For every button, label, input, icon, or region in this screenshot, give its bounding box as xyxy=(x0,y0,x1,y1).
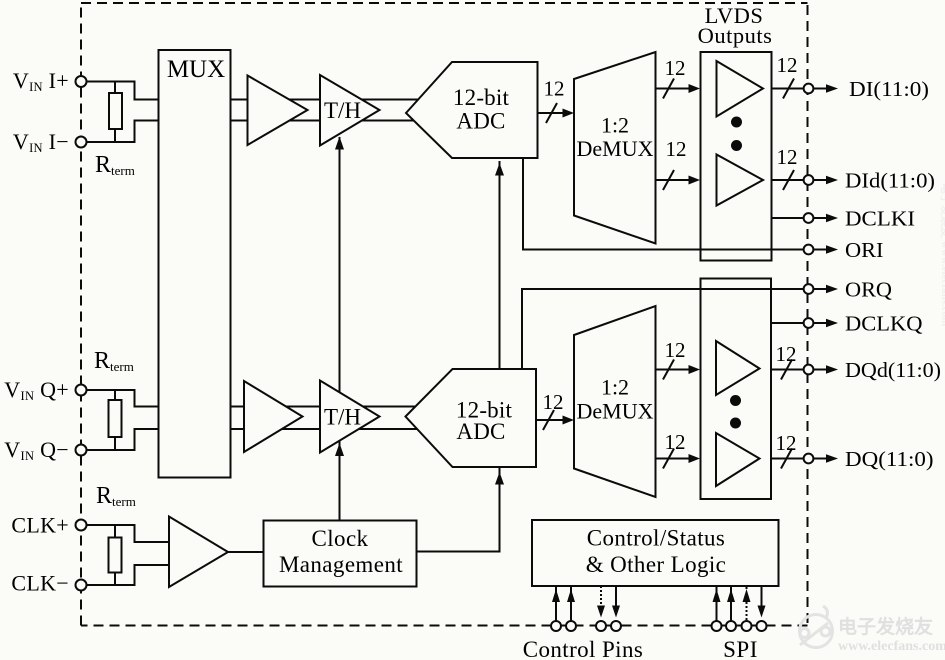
svg-text:T/H: T/H xyxy=(324,98,361,123)
control pin 4 (output arrow) xyxy=(611,586,621,631)
CLK buffer amp xyxy=(169,517,228,588)
input terminal Vin Q+ xyxy=(76,385,87,396)
input terminal CLK- xyxy=(76,580,87,591)
svg-text:VIN Q−: VIN Q− xyxy=(4,437,69,463)
DeMUX Q trapezoid xyxy=(574,306,656,497)
wire ORI from ADC I to output xyxy=(523,158,804,250)
svg-text:电子发烧友 www.elecfans.com: 电子发烧友 www.elecfans.com xyxy=(939,183,945,326)
resistor Rterm I xyxy=(109,82,122,143)
T/H Q xyxy=(320,381,380,453)
output terminal DQ xyxy=(804,454,838,464)
clock wire from Clock Management to ADCs xyxy=(417,161,500,552)
bus slashes DeMUX Q outputs xyxy=(663,360,674,380)
ellipsis dots Q xyxy=(730,395,741,406)
svg-text:12: 12 xyxy=(777,145,798,169)
svg-text:DQ(11:0): DQ(11:0) xyxy=(845,447,934,471)
output terminal DCLKQ xyxy=(804,318,838,328)
arrowhead into DeMUX Q input xyxy=(563,416,575,425)
arrowhead clock into ADC Q xyxy=(495,472,504,485)
svg-text:ORI: ORI xyxy=(845,238,884,262)
svg-text:DI(11:0): DI(11:0) xyxy=(849,77,929,101)
svg-text:DId(11:0): DId(11:0) xyxy=(845,169,935,193)
resistor Rterm CLK xyxy=(109,525,122,585)
svg-text:1:2: 1:2 xyxy=(601,113,629,138)
buffer amp I xyxy=(248,76,308,146)
svg-text:CLK+: CLK+ xyxy=(11,513,69,538)
arrowhead clock into T/H Q xyxy=(335,443,344,456)
svg-text:12: 12 xyxy=(666,137,687,161)
wire CLK- to buffer xyxy=(87,565,170,585)
input terminal CLK+ xyxy=(76,520,87,531)
control pin 1 (input arrow) xyxy=(551,587,561,631)
wire CLK buffer to Clock Management xyxy=(228,551,264,553)
wire ORQ from ADC Q to output xyxy=(522,289,804,369)
svg-text:12: 12 xyxy=(776,431,797,455)
svg-text:& Other Logic: & Other Logic xyxy=(586,552,727,577)
svg-text:12: 12 xyxy=(665,56,686,80)
svg-text:SPI: SPI xyxy=(723,637,758,660)
LVDS driver triangle Q bottom xyxy=(716,433,760,486)
svg-text:DeMUX: DeMUX xyxy=(577,399,654,424)
DeMUX I trapezoid xyxy=(574,52,656,244)
svg-text:12: 12 xyxy=(665,430,686,454)
bus slash ADC Q to DeMUX xyxy=(543,410,554,430)
arrowheads into LVDS I xyxy=(689,84,701,93)
svg-text:电子发烧友: 电子发烧友 xyxy=(838,615,933,638)
output terminal DCLKI xyxy=(804,213,838,223)
svg-text:DCLKQ: DCLKQ xyxy=(845,312,923,336)
control pin 3 (output arrow, dotted) xyxy=(596,586,606,631)
svg-text:MUX: MUX xyxy=(167,56,225,83)
svg-text:T/H: T/H xyxy=(324,405,361,430)
svg-text:www.elecfans.com: www.elecfans.com xyxy=(838,639,945,654)
svg-text:1:2: 1:2 xyxy=(601,375,629,400)
DeMUX I output bus wires to LVDS xyxy=(656,89,695,181)
svg-text:DeMUX: DeMUX xyxy=(577,136,654,161)
SPI pin 1 (input arrow) xyxy=(712,587,722,631)
ADC Q output bus wire to DeMUX Q xyxy=(536,419,567,421)
arrowhead clock into T/H I xyxy=(335,137,344,150)
svg-text:12: 12 xyxy=(777,53,798,77)
arrowhead into DeMUX I input xyxy=(563,109,575,118)
svg-text:Management: Management xyxy=(279,552,403,577)
output terminal ORI xyxy=(804,245,838,255)
ADC I output bus wire to DeMUX I xyxy=(538,112,568,114)
SPI pin 3 (input arrow, dotted) xyxy=(742,587,752,632)
clock wire to T/H stages xyxy=(339,137,341,521)
LVDS output bank I xyxy=(701,52,772,261)
svg-text:Clock: Clock xyxy=(312,526,369,551)
svg-text:DQd(11:0): DQd(11:0) xyxy=(845,358,941,382)
svg-text:Outputs: Outputs xyxy=(698,23,773,48)
chip boundary dashed border xyxy=(81,3,808,626)
ellipsis dots I xyxy=(731,117,742,128)
svg-text:12-bit: 12-bit xyxy=(453,85,510,110)
wire differential pair I (MUX to ADC I) xyxy=(231,100,423,121)
output terminal ORQ xyxy=(804,284,838,294)
input terminal Vin Q- xyxy=(76,445,87,456)
Clock Management block xyxy=(264,521,417,587)
bus slash ADC I to DeMUX xyxy=(546,103,557,123)
SPI pin 4 (output arrow) xyxy=(757,586,767,631)
svg-text:VIN Q+: VIN Q+ xyxy=(4,377,69,403)
svg-text:12: 12 xyxy=(543,390,564,414)
resistor Rterm Q xyxy=(109,390,122,450)
wire Vin I+ to MUX xyxy=(87,82,159,100)
output wires from LVDS I xyxy=(772,89,805,219)
LVDS driver triangle I bottom xyxy=(717,155,764,206)
DeMUX Q output bus wires to LVDS xyxy=(656,370,695,459)
input terminal Vin I- xyxy=(76,137,87,148)
ADC Q pentagon xyxy=(406,369,537,467)
watermark xyxy=(800,183,945,654)
output terminal DQd xyxy=(804,365,838,375)
svg-text:DCLKI: DCLKI xyxy=(845,207,915,231)
Control/Status block xyxy=(532,520,779,586)
bus slashes LVDS outputs xyxy=(783,79,794,99)
SPI pin 2 (input arrow) xyxy=(726,587,736,631)
LVDS driver triangle I top xyxy=(717,61,764,117)
wire Vin I- to MUX xyxy=(87,121,159,143)
svg-text:Control/Status: Control/Status xyxy=(587,526,726,551)
output wires from LVDS Q xyxy=(771,323,804,459)
svg-text:12: 12 xyxy=(776,342,797,366)
svg-text:12: 12 xyxy=(665,338,686,362)
wire differential pair Q (MUX to ADC Q) xyxy=(231,407,423,430)
svg-text:12: 12 xyxy=(544,77,565,101)
output terminal DI xyxy=(804,84,838,94)
ADC I pentagon xyxy=(406,62,538,158)
svg-text:ORQ: ORQ xyxy=(845,278,892,302)
control pin 2 (input arrow) xyxy=(566,587,576,631)
LVDS driver triangle Q top xyxy=(716,341,760,395)
MUX block xyxy=(159,50,231,478)
buffer amp Q xyxy=(244,381,303,452)
LVDS output bank Q xyxy=(701,279,772,500)
T/H I xyxy=(320,75,380,146)
arrowheads into LVDS Q xyxy=(689,365,701,374)
output terminal DId xyxy=(804,175,838,185)
wire CLK+ to buffer xyxy=(87,525,170,542)
bus slashes DeMUX I outputs xyxy=(663,79,674,99)
svg-text:ADC: ADC xyxy=(456,109,505,134)
arrowhead clock into ADC I xyxy=(495,163,504,176)
input terminal Vin I+ xyxy=(76,76,87,87)
svg-text:CLK−: CLK− xyxy=(11,571,69,596)
svg-text:Control Pins: Control Pins xyxy=(523,637,643,660)
wire Vin Q- to MUX xyxy=(87,429,159,450)
wire Vin Q+ to MUX xyxy=(87,390,159,407)
svg-text:ADC: ADC xyxy=(456,419,505,444)
